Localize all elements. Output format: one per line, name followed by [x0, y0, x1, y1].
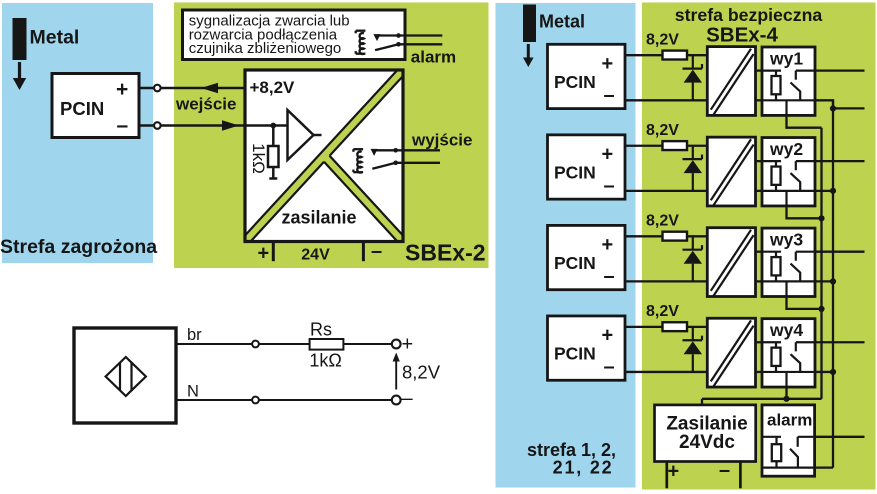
svg-text:wy2: wy2 — [769, 139, 803, 159]
svg-text:+: + — [258, 243, 270, 265]
svg-text:–: – — [604, 175, 615, 197]
svg-text:SBEx-2: SBEx-2 — [405, 240, 486, 266]
svg-text:wy4: wy4 — [769, 320, 803, 340]
svg-text:N: N — [187, 383, 199, 401]
svg-text:–: – — [719, 460, 730, 482]
svg-text:8,2V: 8,2V — [646, 212, 679, 229]
svg-text:+: + — [602, 234, 614, 256]
svg-text:+: + — [116, 78, 128, 101]
svg-text:Rs: Rs — [310, 320, 332, 340]
svg-text:strefa bezpieczna: strefa bezpieczna — [675, 5, 823, 25]
svg-text:Metal: Metal — [30, 27, 80, 49]
svg-text:1kΩ: 1kΩ — [249, 143, 268, 174]
svg-text:+: + — [668, 461, 680, 483]
svg-text:PCIN: PCIN — [554, 72, 596, 92]
svg-text:alarm: alarm — [411, 47, 456, 66]
svg-text:SBEx-4: SBEx-4 — [706, 24, 778, 47]
svg-text:8,2V: 8,2V — [646, 122, 679, 139]
svg-text:czujnika zbliżeniowego: czujnika zbliżeniowego — [189, 40, 342, 57]
svg-text:wyjście: wyjście — [411, 131, 473, 150]
svg-text:1kΩ: 1kΩ — [309, 351, 341, 371]
svg-text:+: + — [602, 144, 614, 166]
svg-text:PCIN: PCIN — [554, 253, 596, 273]
svg-text:alarm: alarm — [767, 411, 812, 430]
svg-text:–: – — [371, 241, 382, 263]
svg-text:wy1: wy1 — [769, 49, 803, 69]
svg-text:–: – — [604, 266, 615, 288]
svg-text:PCIN: PCIN — [554, 163, 596, 183]
svg-text:Strefa zagrożona: Strefa zagrożona — [0, 236, 157, 258]
svg-text:br: br — [187, 326, 202, 344]
svg-text:+: + — [402, 334, 414, 356]
svg-text:8,2V: 8,2V — [646, 303, 679, 320]
svg-text:8,2V: 8,2V — [646, 31, 679, 48]
svg-text:wejście: wejście — [175, 95, 237, 114]
svg-text:–: – — [604, 85, 615, 107]
svg-text:PCIN: PCIN — [60, 98, 104, 119]
svg-text:24Vdc: 24Vdc — [679, 432, 735, 453]
svg-text:wy3: wy3 — [769, 230, 803, 250]
svg-text:–: – — [604, 356, 615, 378]
svg-text:8,2V: 8,2V — [402, 362, 441, 383]
svg-text:–: – — [402, 388, 414, 410]
svg-text:+8,2V: +8,2V — [250, 78, 296, 97]
svg-text:PCIN: PCIN — [554, 344, 596, 364]
svg-text:–: – — [117, 114, 129, 137]
svg-text:+: + — [602, 325, 614, 347]
svg-text:+: + — [602, 53, 614, 75]
svg-text:Metal: Metal — [539, 12, 585, 32]
svg-text:24V: 24V — [301, 247, 330, 264]
svg-text:21, 22: 21, 22 — [553, 458, 614, 478]
svg-text:zasilanie: zasilanie — [281, 208, 356, 228]
